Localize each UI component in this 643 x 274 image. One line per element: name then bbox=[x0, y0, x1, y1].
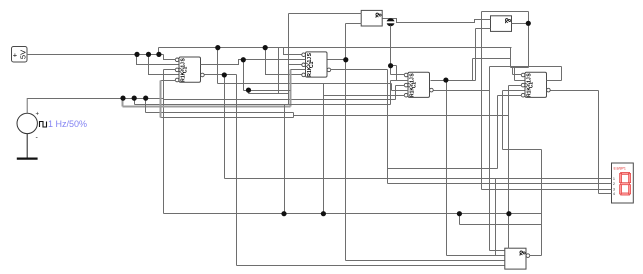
AND gate U6 bbox=[491, 16, 512, 32]
svg-text:&: & bbox=[503, 18, 512, 24]
svg-text:&: & bbox=[374, 12, 383, 18]
wire clock branch x134 bbox=[134, 99, 136, 105]
wire rail168 branch bbox=[388, 96, 522, 169]
wire U6 out bbox=[512, 23, 529, 25]
wire 5V to U1 S bbox=[164, 55, 176, 60]
junction bbox=[281, 211, 286, 216]
JK flip-flop U2 bbox=[302, 52, 331, 77]
wire U2 Q drop to U7 in3 bbox=[346, 60, 505, 261]
wire clock branch x145 bbox=[145, 99, 147, 113]
svg-text:1K: 1K bbox=[410, 87, 416, 94]
junction bbox=[146, 52, 151, 57]
wire U1 Q branch down bbox=[244, 60, 291, 94]
wire clock rail y104 bbox=[135, 104, 391, 106]
svg-text:4: 4 bbox=[613, 192, 615, 196]
wire node drop to U3 S bbox=[391, 26, 405, 75]
junction bbox=[321, 211, 326, 216]
JK flip-flop U1 bbox=[175, 57, 204, 82]
wire nested branch x278 bbox=[278, 48, 280, 94]
wire U2 C1 riser-drop bbox=[288, 14, 290, 105]
junction bbox=[222, 72, 227, 77]
square wave generator V2 1Hz bbox=[17, 112, 47, 142]
AND gate U7 bbox=[505, 248, 530, 269]
svg-text:1 Hz/50%: 1 Hz/50% bbox=[48, 119, 87, 129]
wire U2 C1 stub bbox=[289, 64, 302, 66]
wire display pin2 rail bbox=[388, 183, 612, 185]
wire U3 Q bbox=[431, 80, 476, 82]
wire node jog to U3 1J bbox=[391, 66, 409, 81]
svg-text:8.8/8P1: 8.8/8P1 bbox=[614, 166, 626, 170]
wire U4 1K net bbox=[503, 91, 542, 256]
wire U4 Q loop bbox=[547, 67, 562, 81]
JK flip-flop U4 bbox=[521, 72, 550, 97]
wire U1 Qbar drop to display pin1 rail bbox=[225, 75, 612, 179]
wire U3 Q drop to U7 in2 bbox=[447, 81, 505, 256]
wire rail66 to U4 S bbox=[513, 68, 522, 75]
svg-text:1K: 1K bbox=[527, 87, 533, 94]
junction bbox=[241, 57, 246, 62]
wire U2 Q riser to U5 in2 bbox=[346, 24, 362, 60]
DC voltage source V1 5V bbox=[12, 47, 28, 63]
wire U2 Q bbox=[328, 59, 346, 61]
wire U5 out to U6 in1 bbox=[383, 19, 491, 23]
junction bbox=[506, 211, 511, 216]
wire clock to U1 C1 bbox=[164, 70, 176, 214]
wire clock rail ext to U3 C1 bbox=[164, 86, 405, 100]
wire U7 out to rail213 riser bbox=[530, 255, 542, 257]
junction bbox=[457, 211, 462, 216]
ground bbox=[17, 158, 38, 160]
wire upper rail to U2 R bbox=[266, 48, 302, 75]
junction bbox=[134, 52, 139, 57]
junction bbox=[443, 77, 448, 82]
svg-text:R: R bbox=[307, 73, 313, 77]
wire U3 Qbar to U7 in1 bbox=[434, 67, 505, 251]
junction bbox=[526, 21, 531, 26]
wire U5 in1 from C1 riser bbox=[289, 13, 362, 15]
wire upper rail drop x217 bbox=[217, 48, 219, 84]
junction bbox=[215, 45, 220, 50]
wire U2 Qbar drop bbox=[387, 70, 389, 184]
wire rail213 branch x459 bbox=[460, 214, 542, 225]
wire U1 R stub bbox=[161, 80, 176, 82]
wire rail y83 to U3 K bbox=[218, 84, 409, 91]
wire rail66 lower bbox=[511, 67, 529, 69]
wire U3 Q riser to U6 in2 bbox=[476, 29, 491, 81]
svg-text:R: R bbox=[410, 93, 416, 97]
junction bbox=[120, 96, 125, 101]
node marker on U5 output bbox=[387, 18, 395, 26]
wire U4 Qbar to display pin4 bbox=[551, 91, 612, 194]
junction bbox=[132, 96, 137, 101]
junction bbox=[143, 96, 148, 101]
wire clock rail y115 to U4 C1 bbox=[294, 86, 522, 214]
wire U3 Q riser to H58 bbox=[473, 59, 511, 81]
wire rail y117 from R1 bbox=[161, 116, 294, 118]
wire loop drop to display pin3 rail bbox=[482, 12, 612, 190]
wire clock rail bbox=[28, 98, 164, 100]
wire U1 Q to U2 1J bbox=[201, 60, 306, 65]
wire U6 out drop to rail66 bbox=[528, 24, 530, 68]
svg-text:R: R bbox=[181, 78, 187, 82]
junction bbox=[388, 63, 393, 68]
svg-text:-: - bbox=[36, 135, 39, 142]
wire U2 1K stub bbox=[291, 69, 306, 71]
wire U1 R drop grey bbox=[160, 81, 162, 118]
svg-text:1: 1 bbox=[613, 177, 615, 181]
wire U4 1J from upper rail bbox=[515, 67, 525, 81]
svg-text:&: & bbox=[517, 250, 526, 256]
wire branch pin1 rail to U7 in2 area bbox=[495, 179, 497, 256]
wire U3 R from rail213 bbox=[324, 84, 405, 214]
wire 5V to U1 1K bbox=[149, 55, 179, 75]
wire upper rail drop to U4 region bbox=[510, 48, 512, 68]
svg-text:1K: 1K bbox=[181, 71, 187, 78]
junction bbox=[156, 52, 161, 57]
wire clock rail y112 bbox=[146, 113, 294, 116]
svg-text:3: 3 bbox=[613, 187, 615, 191]
wire 5V to U1 1J bbox=[137, 55, 179, 65]
svg-text:2: 2 bbox=[613, 182, 615, 186]
wire clock branch x123 grey bbox=[122, 99, 124, 107]
wire 5V upper rail bbox=[159, 47, 512, 49]
svg-text:R: R bbox=[527, 93, 533, 97]
wire 5V rail bbox=[27, 54, 164, 56]
wire clock rail y106 grey bbox=[123, 106, 291, 108]
wire lower rail y213 bbox=[164, 213, 542, 215]
wire clock stem top bbox=[26, 98, 28, 113]
wire riser to U3 1J bbox=[391, 81, 409, 105]
wire rail213 riser x284 bbox=[284, 105, 286, 214]
wire U1 Qbar bbox=[205, 74, 237, 76]
wire U2 Qbar bbox=[331, 69, 388, 71]
wire U6 out loop up bbox=[482, 12, 529, 24]
7-segment display DS1 bbox=[612, 163, 634, 203]
svg-text:+: + bbox=[36, 112, 40, 118]
wire grey riser to U2 1K bbox=[290, 70, 292, 107]
wire rail66 upper bbox=[490, 66, 562, 68]
svg-text:1K: 1K bbox=[307, 66, 313, 73]
JK flip-flop U3 bbox=[404, 72, 433, 97]
wire U1 Qbar drop to U7 in4 bbox=[237, 75, 505, 266]
junction bbox=[246, 88, 251, 93]
junction bbox=[263, 45, 268, 50]
wire upper rail to U2 S bbox=[284, 48, 302, 55]
wire clock stem bottom bbox=[26, 134, 28, 159]
wire rail213 drop to U7 bbox=[508, 214, 510, 249]
svg-text:+: + bbox=[13, 50, 18, 59]
junction bbox=[343, 57, 348, 62]
svg-text:5V: 5V bbox=[18, 50, 27, 59]
wire 5V riser bbox=[158, 48, 160, 55]
AND gate U5 bbox=[361, 10, 382, 26]
